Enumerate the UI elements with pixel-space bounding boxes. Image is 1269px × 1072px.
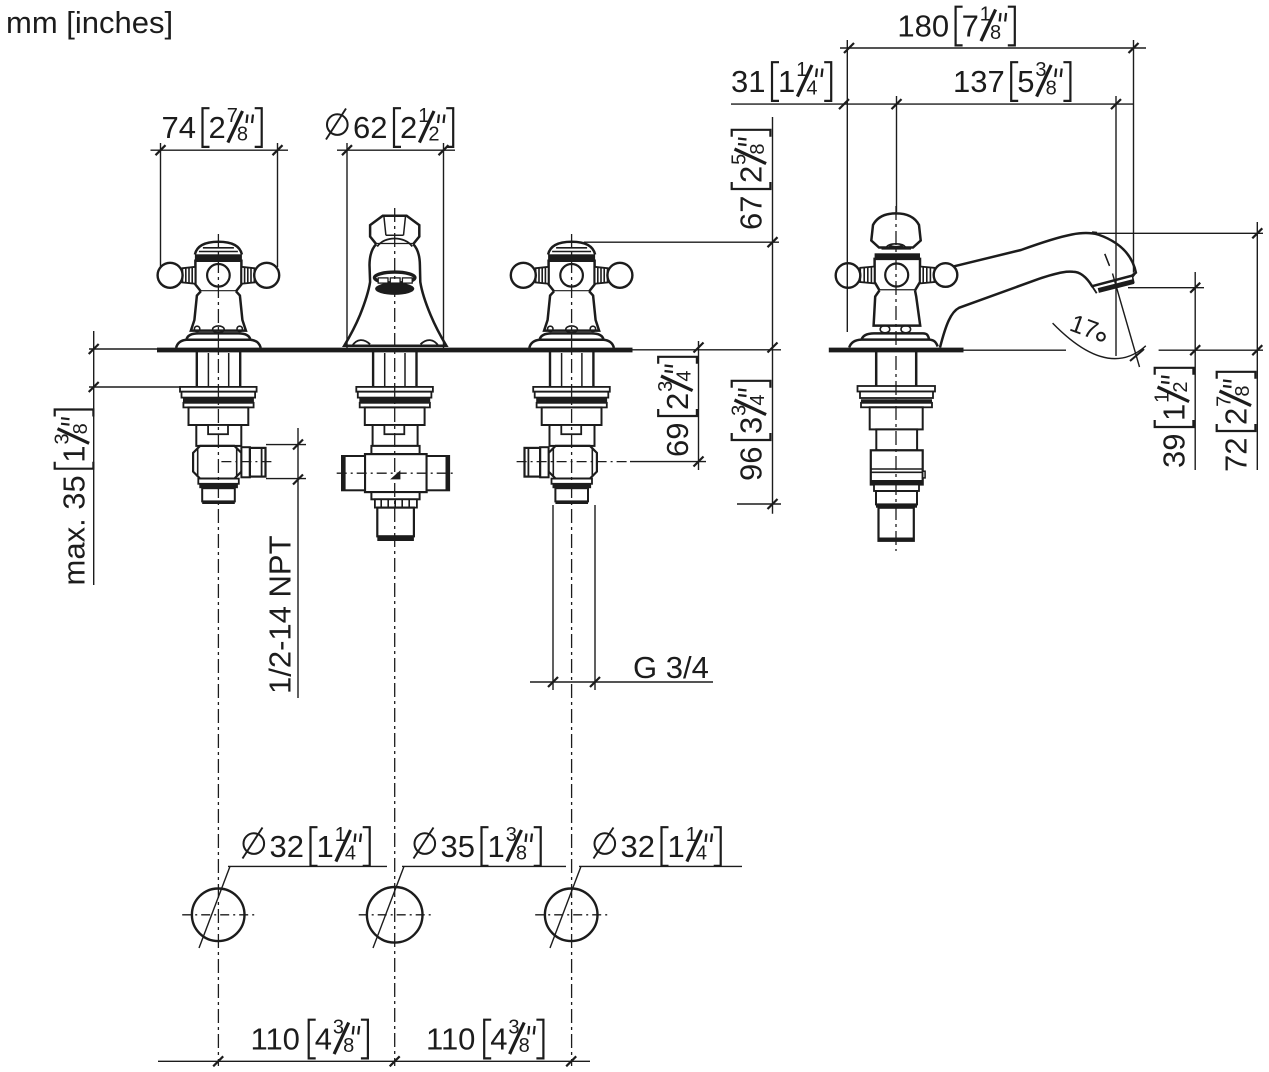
handle center screw circle [560, 264, 583, 287]
valve body octagon [193, 446, 241, 479]
svg-text:2: 2 [660, 393, 695, 410]
left valve below deck [180, 352, 266, 504]
dim 96 text [737, 503, 781, 505]
svg-text:4: 4 [345, 843, 356, 865]
svg-text:67: 67 [734, 196, 769, 230]
side left ball [836, 263, 861, 288]
port centerline middle valve [337, 472, 454, 474]
svg-text:mm [inches]: mm [inches] [6, 5, 173, 40]
spout base fold lines [352, 340, 370, 346]
svg-text:2: 2 [1219, 408, 1254, 425]
valve neck [373, 425, 418, 446]
side body [870, 407, 923, 429]
side base [862, 333, 930, 339]
valve ribbed ring [375, 499, 417, 507]
svg-text:4: 4 [806, 78, 817, 100]
dim 72 [1256, 222, 1258, 470]
handle left ball [511, 263, 536, 288]
dim 180 top right [840, 47, 1146, 49]
side shank below deck [875, 352, 878, 386]
valve lock nut [189, 407, 249, 425]
valve deck flange [533, 387, 610, 392]
ext 39 top [1128, 287, 1204, 289]
side spout nozzle [1133, 273, 1136, 277]
npt leader [297, 428, 299, 698]
svg-text:8: 8 [1046, 78, 1057, 100]
handle center screw circle [207, 264, 230, 287]
svg-text:110: 110 [426, 1022, 475, 1057]
svg-text:74: 74 [162, 110, 196, 145]
svg-text:39: 39 [1157, 434, 1192, 468]
svg-text:8: 8 [1232, 385, 1254, 396]
valve deck flange [356, 387, 433, 392]
hole circle c1 [192, 889, 245, 942]
spout (front view) [344, 216, 446, 346]
circle h-centerline [359, 914, 431, 916]
handle left arm knurl [182, 267, 195, 284]
valve right port [427, 456, 450, 490]
side spout inner dash [1105, 254, 1110, 265]
side block [871, 450, 923, 484]
valve bottom [198, 479, 239, 484]
port centerline left valve [221, 461, 273, 463]
handle base flange [186, 333, 250, 339]
svg-text:8: 8 [343, 1035, 354, 1057]
svg-text:1/2-14 NPT: 1/2-14 NPT [263, 535, 298, 694]
svg-text:8: 8 [747, 143, 769, 154]
handle hub [195, 261, 241, 292]
dim 69 vertical [698, 341, 700, 470]
valve body [365, 454, 427, 492]
svg-text:35: 35 [441, 829, 475, 864]
dim 110 bottom [158, 1060, 590, 1062]
hole circle c2 [367, 887, 423, 943]
handle cross top dome [548, 242, 595, 255]
valve lock nut [542, 407, 602, 425]
circle h-centerline [182, 914, 254, 916]
side right knurl [920, 267, 934, 284]
handle hub [549, 261, 595, 292]
deck line side view [829, 348, 964, 353]
valve shank below deck [549, 352, 551, 387]
svg-text:G 3/4: G 3/4 [633, 650, 709, 685]
svg-text:110: 110 [251, 1022, 300, 1057]
svg-text:4: 4 [674, 370, 696, 381]
valve lower flange [371, 492, 419, 499]
svg-text:96: 96 [734, 447, 769, 481]
side hub circle [885, 264, 908, 287]
deck line front view [157, 348, 633, 353]
svg-text:8: 8 [237, 124, 248, 146]
right handle (front view) [511, 242, 633, 348]
spout dome arc [377, 238, 412, 246]
svg-text:1: 1 [778, 64, 795, 99]
centerline right [571, 234, 573, 1066]
side tailpiece [879, 508, 914, 541]
svg-text:31: 31 [731, 64, 765, 99]
handle left arm knurl [536, 267, 549, 284]
valve bottom [552, 479, 593, 484]
svg-text:62: 62 [353, 110, 387, 145]
handle skirt [191, 291, 246, 330]
left handle (front view) [158, 242, 280, 348]
svg-text:137: 137 [953, 64, 1005, 99]
side left knurl [860, 267, 874, 284]
svg-text:4: 4 [747, 394, 769, 405]
handle dark band [195, 254, 242, 260]
side lower [874, 485, 919, 492]
circle h-centerline [535, 914, 607, 916]
svg-text:180: 180 [897, 9, 949, 44]
side view faucet [836, 213, 1136, 540]
centerline middle [394, 208, 396, 1066]
valve side port cap [525, 448, 541, 477]
right valve below deck [525, 352, 610, 504]
svg-text:5: 5 [1017, 64, 1034, 99]
svg-text:4: 4 [315, 1022, 332, 1057]
npt label [263, 535, 298, 694]
svg-text:1: 1 [488, 829, 505, 864]
side handle top knob [871, 213, 920, 247]
handle base flange [540, 333, 604, 339]
ext lines top right [846, 40, 848, 332]
valve tailpiece [377, 508, 414, 537]
svg-text:2: 2 [734, 166, 769, 183]
handle right ball [254, 263, 279, 288]
dim 74 top left [151, 149, 289, 151]
valve left port [342, 456, 365, 490]
svg-text:32: 32 [621, 829, 655, 864]
ext deck right [964, 349, 1067, 351]
17 degree arc [1053, 323, 1146, 359]
spout hex cap [370, 216, 419, 244]
valve neck [550, 425, 595, 446]
valve side port hex [241, 447, 250, 477]
17 degree lines [1105, 254, 1110, 266]
svg-text:1: 1 [668, 829, 685, 864]
svg-text:8: 8 [70, 423, 92, 434]
spout body [344, 244, 446, 346]
side handle dark band [875, 253, 920, 259]
valve neck [196, 425, 241, 446]
valve body octagon [549, 446, 597, 479]
valve side port cap [250, 448, 266, 477]
valve side port hex [540, 447, 549, 477]
svg-text:8: 8 [516, 843, 527, 865]
valve deck flange [180, 387, 257, 392]
svg-text:2: 2 [209, 110, 226, 145]
svg-text:1: 1 [57, 445, 92, 462]
handle right arm knurl [595, 267, 608, 284]
dim dia62 [337, 149, 455, 151]
17 degree text [1066, 309, 1110, 348]
svg-text:2: 2 [1170, 381, 1192, 392]
svg-text:8: 8 [990, 22, 1001, 44]
ext 72 top [1094, 232, 1263, 234]
centerline side view [895, 206, 897, 551]
svg-text:3: 3 [734, 417, 769, 434]
svg-text:4: 4 [490, 1022, 507, 1057]
svg-text:69: 69 [660, 423, 695, 457]
side handle hub [875, 259, 920, 291]
dim 67 vertical [772, 117, 774, 514]
svg-text:4: 4 [696, 843, 707, 865]
handle skirt [544, 291, 599, 330]
G 3/4 dim [552, 505, 554, 690]
side spout body [940, 233, 1136, 348]
valve shank below deck [372, 352, 374, 387]
handle right arm knurl [241, 267, 254, 284]
dim max35 [93, 331, 95, 585]
handle left ball [158, 263, 183, 288]
side right ball [934, 263, 958, 287]
dim 39 [1194, 272, 1196, 470]
svg-text:max. 35: max. 35 [57, 475, 92, 585]
valve shank below deck [196, 352, 198, 387]
svg-text:8: 8 [519, 1035, 530, 1057]
centerline left [217, 234, 219, 1066]
spout mouth [375, 283, 414, 295]
hole circle c3 [545, 889, 598, 942]
deck thin extension left [89, 348, 157, 350]
svg-text:32: 32 [270, 829, 304, 864]
handle dark band [548, 254, 595, 260]
svg-text:7: 7 [962, 9, 979, 44]
svg-text:1: 1 [1157, 404, 1192, 421]
svg-text:2: 2 [428, 124, 439, 146]
svg-text:72: 72 [1219, 438, 1254, 472]
side cartridge [876, 429, 917, 450]
side spout apex tick [1092, 231, 1097, 234]
valve collar [371, 446, 419, 454]
handle right ball [607, 263, 632, 288]
side skirt [874, 290, 921, 325]
side deck flange [858, 386, 936, 392]
middle valve below deck [342, 352, 449, 541]
spout aerator ring [375, 272, 415, 283]
valve lock nut [365, 407, 425, 425]
port centerline right valve [517, 461, 627, 463]
handle cross top dome [195, 242, 242, 255]
dim 31 / 137 [731, 103, 1133, 105]
svg-text:1: 1 [317, 829, 334, 864]
dia labels above circles [228, 865, 387, 867]
deck thin extension right [633, 349, 782, 351]
svg-text:2: 2 [400, 110, 417, 145]
